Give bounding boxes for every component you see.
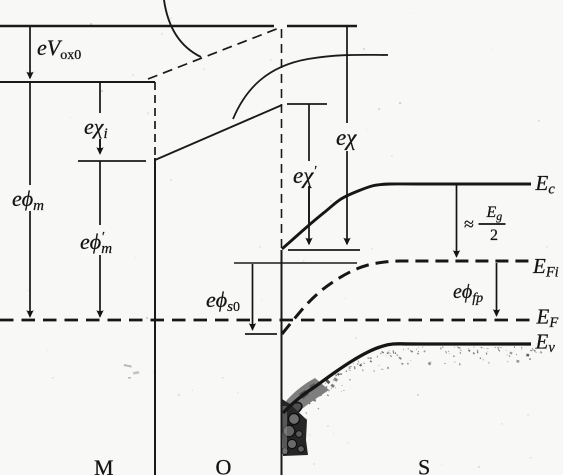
e.chi_i arrow (99, 82, 101, 152)
svg-text:eχ: eχ (336, 125, 357, 150)
svg-text:eϕm: eϕm (12, 186, 44, 214)
e.phi_fp arrow (496, 263, 498, 316)
metal vacuum level line (0, 81, 155, 83)
svg-text:eϕs0: eϕs0 (206, 287, 240, 315)
e.chi' arrow (308, 104, 310, 225)
e.phi_m arrow shaft (lower, with head on E_F) (29, 211, 31, 317)
svg-text:S: S (418, 455, 430, 475)
E_c band edge curve (semiconductor) (282, 184, 531, 249)
dark blob at interface below E_v (282, 378, 329, 456)
svg-text:Eg: Eg (486, 204, 503, 223)
O/S boundary (dashed upper part) (281, 29, 283, 250)
e.phi_m arrow shaft (upper) (29, 82, 31, 185)
svg-text:eϕfp: eϕfp (453, 281, 483, 306)
svg-text:eVox0: eVox0 (37, 35, 81, 63)
gray gravel patch at base of bend (286, 378, 329, 413)
approx Eg/2 arrow (456, 185, 458, 257)
svg-text:O: O (216, 455, 232, 475)
dark cobble mass at interface (282, 399, 308, 456)
e.phi_s0 bottom tick (245, 333, 277, 335)
svg-text:eϕ′m: eϕ′m (80, 229, 112, 257)
eV_ox0 arrow (29, 27, 31, 78)
oxide E_c tick at interface (top of e.chi') (287, 103, 327, 105)
E_F Fermi level dashed line (full width) (0, 319, 533, 322)
stipple speckles under E_v (287, 346, 543, 425)
oxide conduction band diagonal (155, 105, 282, 160)
surface E_c tick (288, 249, 360, 251)
svg-text:M: M (94, 455, 114, 475)
E_Fi intrinsic level dashed curve (282, 261, 534, 334)
svg-text:2: 2 (490, 227, 498, 244)
vacuum level dashed diagonal across oxide (148, 28, 279, 79)
leader curve 1 (to vacuum dashed diagonal) (164, 0, 201, 57)
svg-text:≈: ≈ (464, 214, 474, 234)
M/O boundary (dashed upper part) (154, 82, 156, 158)
svg-text:Ec: Ec (535, 171, 556, 198)
E_v valence band curve (283, 344, 531, 413)
E_Fi bulk extension tick (top of e.phi_s0) (234, 262, 357, 264)
e.chi_i bottom tick (78, 160, 146, 162)
e.phi'_m arrow (99, 161, 101, 225)
svg-text:Ev: Ev (535, 330, 556, 357)
svg-text:eχi: eχi (84, 114, 108, 142)
svg-text:eχ′: eχ′ (293, 163, 317, 188)
leader curve 2 (from oxide band, flattening right) (233, 55, 388, 119)
svg-text:EFi: EFi (532, 254, 559, 281)
e.chi arrow (346, 26, 348, 123)
fraction bar (479, 223, 506, 225)
e.phi_s0 arrow (252, 264, 254, 330)
M/O boundary (solid) (154, 158, 156, 475)
vacuum level line (semiconductor side, top) (0, 25, 357, 27)
O/S boundary (solid) (281, 250, 283, 475)
svg-text:EF: EF (536, 305, 559, 332)
